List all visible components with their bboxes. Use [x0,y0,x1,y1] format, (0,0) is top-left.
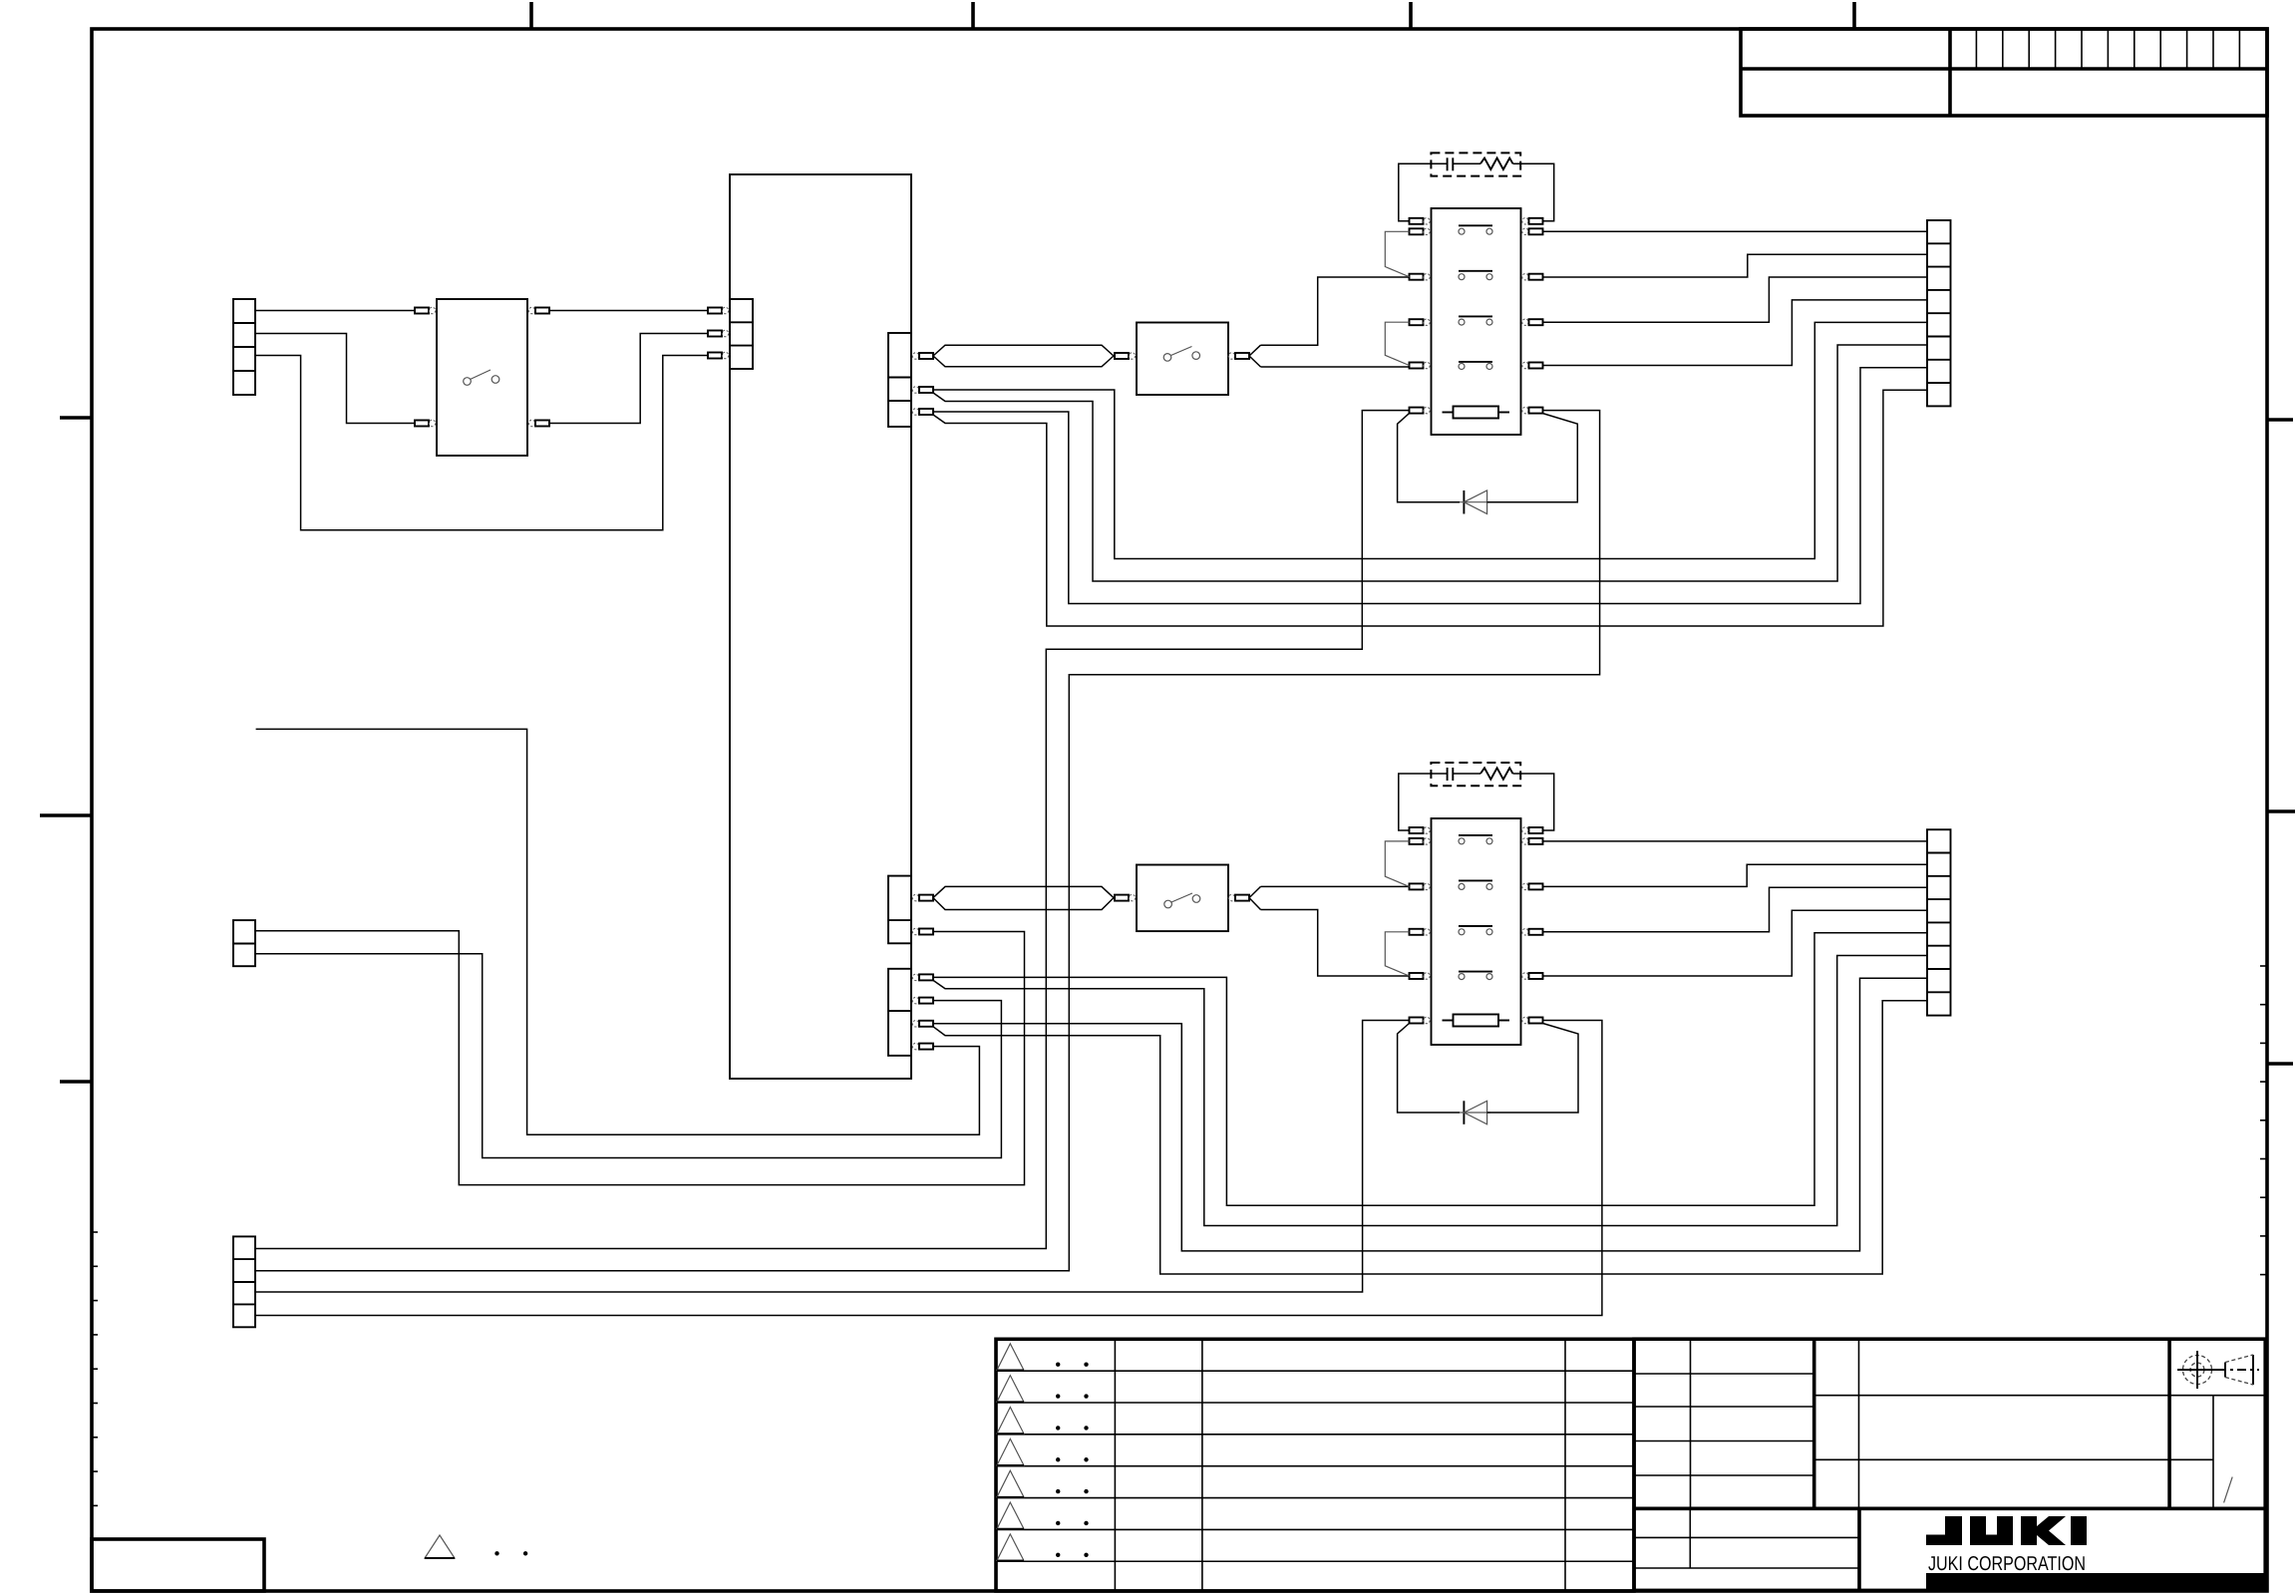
relay K2 contact 4 [1459,971,1492,973]
wire J1 d3 to CN5-7 [933,978,1927,1251]
relay K2 right pin 8 [1522,838,1528,844]
wire J1 d4 stub [256,729,980,1134]
projection symbol [2183,1356,2212,1385]
J1 right terminal block upper [888,333,911,427]
wire J1 b3 mate to CN2-8 [933,390,1927,626]
wire K2 pin9 to CN5-2 [1543,864,1928,886]
relay K1 right pin 7 [1522,218,1528,224]
wire J1 d3 mate to CN5-8 [933,1001,1927,1274]
wire K2 coil pin6 to CN4-3 [255,1021,1410,1293]
capacitor C1 [1447,158,1449,170]
switch SW2 output pin [1228,353,1234,359]
relay K1 coil [1454,407,1499,419]
relay K2 left pin 1 [1410,827,1424,833]
wire J1 d1 to CN5-5 [933,933,1927,1205]
switch SW1 pin 2 [415,421,429,427]
revision table triangles [997,1344,1024,1371]
relay K1 [1432,208,1521,435]
J1 pin c2 [912,928,918,934]
wire K2 pin10 to CN5-3 [1543,887,1928,932]
J1 pin a1 [708,308,722,314]
snubber RC2 dashed box [1431,763,1520,786]
relay K1 left pin 6 [1410,408,1424,414]
wire K2 pin1 to snubber [1399,774,1448,830]
wire CN1-3 to J1 pin a3 [255,356,708,530]
wire CN3-1 to J1 c2 [255,931,1025,1185]
relay K2 right pin 11 [1522,973,1528,979]
twisted pair to SW2 [933,345,1114,356]
twisted pair to SW3 [933,886,1114,897]
connector CN1 [233,299,255,395]
wire K1 pin9 to CN2-2 [1543,254,1928,277]
connector CN3 [233,920,255,966]
wire J1 d2 to CN3-2 [255,954,1001,1158]
K2 jumper pin2-pin3 [1385,841,1409,887]
relay K2 [1432,818,1521,1045]
switch SW1 [437,299,527,456]
wire R2 to K2 pin7 [1513,774,1554,830]
K2 jumper pin4-pin5 [1385,932,1409,976]
J1 pin b2 [912,387,918,393]
wire CN1-2 to SW1 [255,334,415,424]
wire K2 coil pin12 to CN4-4 [255,1021,1602,1316]
wire C2 to R2 [1453,773,1480,775]
relay K1 right pin 8 [1522,228,1528,234]
wire K1 coil pin6 to CN4-1 [255,411,1410,1249]
switch SW1 pin 3 [528,307,534,313]
relay K2 contact 2 [1459,879,1492,881]
relay K2 right pin 7 [1522,827,1528,833]
J1 right terminal block lower [888,969,911,1056]
relay K1 left pin 2 [1410,228,1424,234]
switch SW2 [1137,323,1228,396]
relay K2 right pin 12 [1522,1017,1528,1023]
wire K1 pin10 to CN2-3 [1543,277,1928,322]
relay K1 contact 1 [1459,224,1492,226]
snubber RC1 dashed box [1431,153,1520,175]
SW3 input pin [1115,895,1129,901]
sheet slash mark [2224,1477,2233,1503]
J1 pin d1 [912,974,918,980]
switch SW3 output pin [1228,894,1234,900]
wire K1 pin1 to snubber [1399,163,1448,221]
wire D1 to K1 coil+ [1487,414,1578,502]
twisted pair SW2 to K1 [1249,345,1261,356]
switch SW3 [1137,865,1228,932]
SW2 input pin [1115,353,1129,359]
connector CN4 [233,1236,255,1327]
relay K1 left pin 3 [1410,274,1424,280]
wire pair upper to K1 pin 3 [1261,277,1410,345]
wire K1 coil- to D1 [1398,414,1460,502]
capacitor C2 [1447,768,1449,781]
J1 pin d2 [912,997,918,1003]
J1 pin b3 [912,409,918,415]
junction box J1 [730,174,911,1079]
J1 left terminal block [730,299,753,369]
diode D1 [1463,490,1465,514]
title block black bar [1926,1573,2265,1590]
switch SW2 contact symbol [1163,354,1171,362]
diode D2 [1463,1101,1465,1124]
wire R1 to K1 pin7 [1513,163,1554,221]
relay K2 left pin 3 [1410,883,1424,889]
relay K2 left pin 4 [1410,929,1424,935]
resistor R1 [1480,159,1513,170]
wire K2 pin11 to CN5-4 [1543,910,1928,976]
wire K2 coil- to D2 [1398,1024,1460,1114]
relay K1 right pin 11 [1522,362,1528,368]
relay K1 right pin 9 [1522,274,1528,280]
J1 pin d3 [912,1021,918,1027]
title header table [1741,29,2267,116]
title block [1634,1339,2265,1590]
relay K1 left pin 5 [1410,363,1424,369]
wire J1 b2 mate to CN2-6 [933,345,1927,581]
relay K2 right pin 9 [1522,883,1528,889]
wire pair upper to K2 pin 3 [1261,885,1410,887]
switch SW1 pin 1 [415,308,429,314]
relay K1 contact 3 [1459,315,1492,317]
wire pair lower to K1 pin 5 [1261,366,1410,368]
relay K2 coil [1454,1015,1499,1027]
switch SW1 pin 4 [528,420,534,426]
wire SW1 to J1 pin a1 [549,310,708,312]
J1 pin b1 [912,353,918,359]
J1 pin d4 [912,1043,918,1049]
relay K1 contact 2 [1459,270,1492,272]
relay K1 left pin 1 [1410,218,1424,224]
svg-text:JUKI CORPORATION: JUKI CORPORATION [1928,1553,2086,1575]
wire pair lower to K2 pin 5 [1261,910,1410,977]
relay K1 right pin 12 [1522,407,1528,413]
wire D2 to K2 coil+ [1487,1024,1578,1114]
revision mark triangle [425,1535,455,1558]
JUKI logo [1926,1516,1962,1545]
relay K2 left pin 5 [1410,973,1424,979]
relay K2 contact 3 [1459,925,1492,927]
K1 jumper pin2-pin3 [1385,231,1409,276]
relay K1 left pin 4 [1410,319,1424,325]
J1 pin a3 [708,353,722,359]
relay K2 contact 1 [1459,834,1492,836]
wire CN1-1 to SW1 [255,310,415,312]
wire C1 to R1 [1453,162,1480,164]
wire K1 coil pin12 to CN4-2 [255,411,1600,1271]
relay K2 left pin 2 [1410,838,1424,844]
resistor R2 [1480,768,1513,780]
relay K1 contact 4 [1459,361,1492,363]
J1 right terminal block mid [888,876,911,944]
wire J1 b3 to CN2-7 [933,368,1927,604]
wire J1 b2 to CN2-5 [933,322,1927,558]
wire K2 pin8 to CN5-1 [1543,840,1928,842]
revision table [996,1339,1634,1591]
wire K1 pin11 to CN2-4 [1543,300,1928,366]
relay K2 right pin 10 [1522,929,1528,935]
wire SW1 to J1 pin a2 [549,334,708,424]
J1 pin a2 [708,331,722,337]
twisted pair SW3 to K2 [1249,886,1261,897]
wire J1 d1 mate to CN5-6 [933,956,1927,1226]
relay K1 right pin 10 [1522,319,1528,325]
switch SW3 contact symbol [1164,900,1172,908]
K1 jumper pin4-pin5 [1385,322,1409,365]
switch SW1 contact symbol [464,378,472,386]
connector CN2 [1927,220,1951,406]
connector CN5 [1927,829,1951,1015]
relay K2 left pin 6 [1410,1018,1424,1024]
wire K1 pin8 to CN2-1 [1543,230,1928,232]
J1 pin c1 [912,894,918,900]
